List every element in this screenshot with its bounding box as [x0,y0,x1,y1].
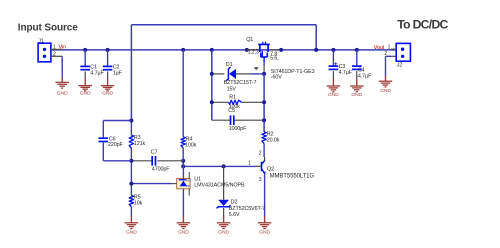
resistor R5 [129,195,133,216]
resistor R3 [129,135,133,148]
ground D2 [217,216,231,236]
svg-text:GND: GND [126,230,137,236]
svg-text:J2: J2 [397,63,402,69]
svg-text:2: 2 [53,51,56,57]
pin 2 label J2 [384,51,387,57]
ground R5 [125,216,138,236]
value MMBT5550LT1G [270,174,315,180]
ground C4 [350,79,364,99]
capacitor C5 [212,108,264,132]
svg-text:5.6V: 5.6V [229,212,240,218]
junction U1 ref [129,182,133,186]
wire R3 rail [130,121,132,196]
value 5.6V [229,212,240,218]
pins 1,2,3 Q1 [248,50,259,56]
junction C2 [106,48,110,52]
ground Q2 [258,216,272,236]
junction R4 C7 [181,159,185,163]
wire U1 ref [131,183,171,185]
wire Q2 base net [183,165,256,167]
label D2 [231,200,238,206]
label Q1 [246,37,253,43]
transistor Q1 [247,42,281,62]
svg-text:Input Source: Input Source [18,23,78,34]
value BZT52C15T-7 [224,80,257,86]
svg-text:1: 1 [248,161,251,167]
ground C2 [101,79,115,97]
wire top feedback bypass [131,25,316,121]
svg-text:GND: GND [57,91,68,97]
junction base left [181,164,185,168]
capacitor C4 [352,50,372,80]
ground C1 [78,79,92,97]
svg-text:D2: D2 [231,200,238,206]
svg-text:+: + [334,61,338,68]
svg-text:20.0k: 20.0k [267,137,280,143]
svg-text:GND: GND [102,91,113,97]
svg-text:10k: 10k [134,201,143,207]
value 100k R4 [185,142,197,148]
junction Q1 source [245,48,249,52]
label R5 [134,195,141,201]
value 15V [227,86,237,92]
label U1 [194,177,201,183]
junction R3 top [129,119,133,123]
value 100k R1 [229,104,241,110]
svg-text:GND: GND [380,88,391,94]
svg-text:GND: GND [178,230,189,236]
connector J1 [38,39,62,62]
capacitor C2 [103,50,123,79]
title To DC/DC [397,17,448,31]
junction C4 [355,48,359,52]
junction D1 rail [210,48,214,52]
value 220pF [108,142,124,148]
svg-text:4.7µF: 4.7µF [90,70,104,76]
svg-text:R1: R1 [229,95,236,101]
zener D1 [212,67,264,81]
svg-text:To DC/DC: To DC/DC [397,17,448,31]
svg-text:121k: 121k [134,141,146,147]
svg-text:Q1: Q1 [246,37,253,43]
ground U1 [177,216,191,236]
connector J2 [391,43,410,68]
svg-text:1000pF: 1000pF [229,126,247,132]
value SI7461DP-T1-GE3 [271,69,315,75]
resistor R2 [262,132,266,157]
pin 1 label J1 [53,45,56,51]
value -60V [271,75,282,81]
junction C7 left [129,159,133,163]
pin 1 label J2 [388,44,391,50]
svg-text:5,6,: 5,6, [270,56,278,62]
label R2 [267,131,274,137]
value 121k [134,141,146,147]
svg-text:BZT52C15T-7: BZT52C15T-7 [224,80,257,86]
value BZT52C5V6T-7 [229,206,265,212]
junction Q1 drain [279,48,283,52]
svg-text:Vin: Vin [59,45,66,51]
svg-text:220pF: 220pF [108,142,124,148]
pins 5,6 Q1 [270,56,278,62]
resistor R1 [212,100,264,104]
ground J2 [379,76,393,94]
capacitor C3 [329,50,353,79]
svg-text:4.7µF: 4.7µF [339,70,353,76]
svg-text:GND: GND [218,230,229,236]
junction feedback tap [314,48,318,52]
wire Vin rail [51,49,396,51]
svg-text:1µF: 1µF [113,70,123,76]
svg-text:J1: J1 [38,39,43,45]
svg-text:15V: 15V [227,86,237,92]
svg-text:NC: NC [187,184,191,188]
capacitor C7 [131,150,183,173]
svg-text:Q2: Q2 [267,166,274,172]
value 20.0k [267,137,280,143]
wire D2 drop [223,166,225,199]
svg-text:C5: C5 [228,108,235,114]
label D1 [226,62,233,68]
pins 7,8 Q1 [270,52,277,58]
svg-text:1: 1 [53,45,56,51]
svg-text:NC: NC [187,179,191,183]
svg-text:4.7µF: 4.7µF [358,74,372,80]
svg-text:GND: GND [351,92,362,98]
ground J1 [55,78,68,97]
wire R4 bottom node [182,161,184,167]
pin 2 label J1 [53,51,56,57]
junction C5 right [262,118,266,122]
junction D1 left [210,72,214,76]
junction R4 rail [181,48,185,52]
pin 3 Q2 [259,177,262,183]
junction D2 tap [222,164,226,168]
ground C3 [327,79,341,99]
capacitor C1 [80,50,104,79]
svg-text:GND: GND [328,92,339,98]
svg-text:-60V: -60V [271,75,282,81]
junction R1 left [210,100,214,104]
svg-text:3: 3 [259,177,262,183]
net label Vout [374,45,385,51]
svg-text:Vout: Vout [374,45,385,51]
regulator U1 [172,166,191,216]
wire gate rail [263,74,265,132]
value 10k [134,201,143,207]
junction D1 right [262,72,266,76]
svg-text:GND: GND [259,230,270,236]
junction C3 [331,48,335,52]
svg-text:U1: U1 [194,177,201,183]
transistor Q2 [256,157,266,217]
svg-text:MMBT5550LT1G: MMBT5550LT1G [270,174,315,180]
title Input Source [18,23,78,34]
label R1 [229,95,236,101]
label R3 [134,135,141,141]
svg-text:4700pF: 4700pF [152,167,170,173]
resistor R4 [181,137,185,161]
svg-text:1,2,3: 1,2,3 [248,50,259,56]
svg-text:LMV431ACM5/NOPB: LMV431ACM5/NOPB [194,183,245,189]
value LMV431ACM5/NOPB [194,183,245,189]
svg-text:2: 2 [259,150,262,156]
label R4 [186,137,193,143]
junction R1 right [262,100,266,104]
wire D1 left rail [211,50,213,120]
junction C1 [83,48,87,52]
svg-text:C7: C7 [151,150,158,156]
wire Q1 gate [263,62,265,74]
svg-text:100k: 100k [185,142,197,148]
svg-text:1: 1 [388,44,391,50]
gate marker arrow [254,67,259,70]
pin 2 Q2 [259,150,262,156]
label C6 [109,136,116,142]
net label Vin [59,45,66,51]
capacitor C6 branch [99,121,132,161]
svg-text:GND: GND [80,91,91,97]
wire R4 rail [182,50,184,137]
wire J1 pin2 to ground [61,56,63,78]
pin 1 Q2 [248,161,251,167]
zener D2 [217,200,231,217]
wire J2 pin2 to ground [386,56,392,76]
svg-text:D1: D1 [226,62,233,68]
label Q2 [267,166,274,172]
